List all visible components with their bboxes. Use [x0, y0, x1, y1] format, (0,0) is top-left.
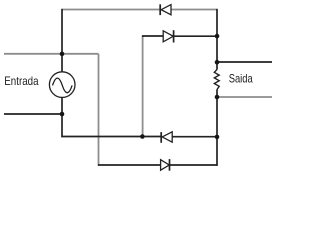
resistor R load	[214, 70, 219, 90]
wire input top terminal	[4, 53, 99, 55]
diode D1 triangle	[161, 5, 171, 15]
svg-text:Entrada: Entrada	[4, 74, 38, 88]
wire input bottom terminal	[4, 113, 62, 115]
diode D4 triangle	[161, 160, 170, 171]
node output top junction	[215, 60, 220, 65]
node output bottom junction	[215, 95, 220, 100]
diode D4 bar (cathode)	[169, 159, 171, 171]
AC source sine wave	[53, 78, 73, 93]
diode D3 bar (cathode)	[160, 132, 162, 143]
wire right vertical lower	[216, 90, 218, 166]
wire D2 row left segment	[142, 35, 163, 37]
wire D2 row right segment	[174, 35, 217, 37]
wire top rail right gray segment	[171, 9, 218, 11]
diode D3 triangle	[162, 132, 172, 142]
svg-text:Saida: Saida	[229, 72, 253, 86]
diode D1 bar (cathode)	[159, 4, 161, 15]
wire gray vertical from input to D4 row	[98, 54, 100, 165]
node input bottom junction	[60, 112, 65, 117]
wire left vertical lower (source bottom lead)	[61, 97, 63, 137]
node input top junction	[60, 52, 65, 57]
diode D2 triangle	[163, 31, 173, 42]
wire output top terminal	[217, 61, 272, 63]
node D3 left junction	[140, 134, 145, 139]
wire right vertical upper	[216, 9, 218, 70]
wire bottom row right of D3	[172, 136, 217, 138]
wire left vertical upper (source top lead)	[61, 9, 63, 72]
wire bottom row left of D3	[61, 136, 161, 138]
wire output bottom terminal	[217, 96, 272, 98]
node D2 right junction	[215, 34, 220, 39]
wire gray vertical from D2 corner to D3 junction	[142, 36, 144, 137]
node D3/D4 right junction	[215, 135, 220, 140]
AC source V1 circle	[49, 72, 75, 98]
wire D4 row right segment	[170, 164, 218, 166]
wire top rail left gray segment	[62, 9, 161, 11]
wire D4 row left segment	[98, 164, 161, 166]
diode D2 bar (cathode)	[173, 30, 175, 42]
